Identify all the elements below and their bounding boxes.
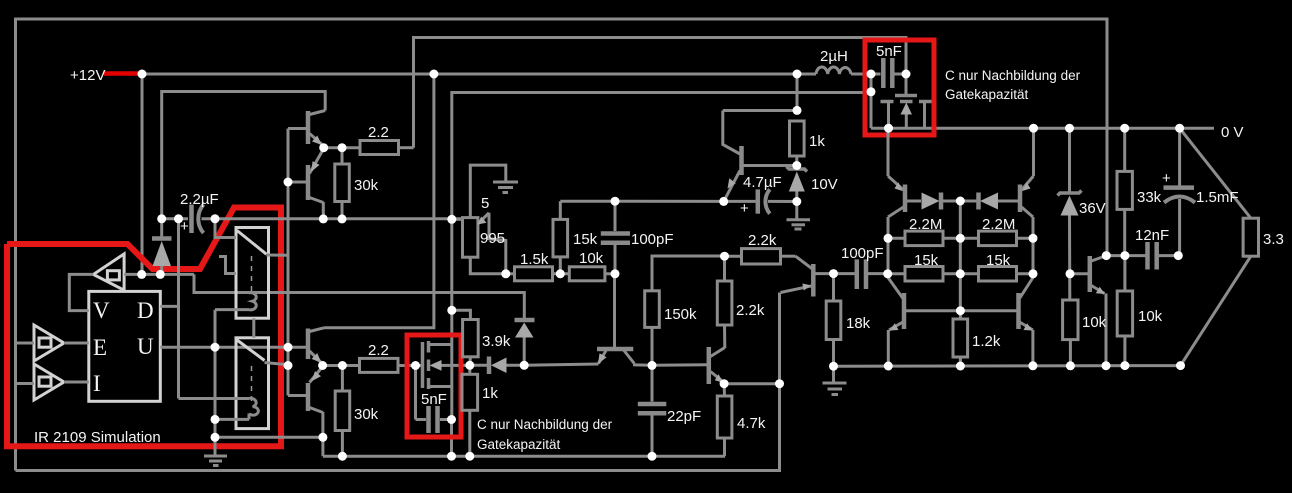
svg-text:15k: 15k: [914, 252, 939, 269]
wire I input: [16, 382, 35, 385]
wire to lower PNP collector node: [215, 436, 323, 439]
wire rail2 to top mosfet gate: [414, 38, 907, 148]
wire U output to driver bases: [160, 346, 288, 349]
switch S1: [236, 228, 269, 319]
svg-text:36V: 36V: [1079, 200, 1106, 217]
wire +12V drop to 1k: [796, 74, 799, 111]
svg-text:2.2k: 2.2k: [748, 232, 777, 249]
wire diode mid column: [959, 201, 962, 311]
switch S2: [236, 338, 269, 429]
wire driver base bus: [287, 129, 290, 396]
diode D4: [922, 193, 940, 210]
wire E buffer to box: [64, 342, 89, 345]
wire +12V drop to upper driver input: [141, 74, 144, 274]
svg-text:3.9k: 3.9k: [482, 333, 511, 350]
resistor R 3.9k: [452, 310, 471, 319]
buffer A2 (E input): [34, 325, 64, 361]
wire +12V drop to lower totem collector: [324, 74, 434, 328]
resistor R 2.2k vertical: [723, 256, 726, 281]
wire 0V rail: [871, 127, 1214, 130]
svg-text:10k: 10k: [579, 250, 604, 267]
red highlight box M1: [865, 40, 934, 135]
wire Q8 emitter to output column: [724, 382, 779, 385]
svg-text:2.2M: 2.2M: [909, 216, 942, 233]
node +12V label lead: [104, 71, 142, 76]
coil L S1: [249, 293, 256, 310]
transistor Q11 PNP left: [903, 185, 908, 213]
wire S1 coil return: [215, 308, 249, 311]
diode D5: [960, 200, 978, 203]
wire bottom rail to PNP emitter: [16, 293, 780, 471]
wire upper driver output node: [324, 146, 360, 149]
buffer A3 (I input): [34, 364, 64, 400]
ground pot: [493, 181, 518, 184]
svg-text:2.2: 2.2: [368, 124, 389, 141]
wire S1-S2 link: [252, 318, 255, 338]
capacitor C 22pF: [651, 366, 654, 402]
svg-text:995: 995: [480, 230, 505, 247]
svg-text:1.5k: 1.5k: [520, 251, 549, 268]
svg-text:1k: 1k: [482, 385, 498, 402]
svg-text:30k: 30k: [354, 406, 379, 423]
wire +12V rail: [142, 73, 816, 76]
inductor L 2uH: [816, 67, 851, 74]
resistor R 1k top: [790, 121, 805, 156]
svg-text:15k: 15k: [986, 252, 1011, 269]
capacitor C 4.7uF: [724, 200, 756, 203]
zener D 36V: [1068, 128, 1071, 192]
red highlight box M2: [407, 335, 461, 437]
wire coil ground column: [214, 310, 217, 455]
diode D3 from A1 net: [515, 318, 535, 323]
capacitor C 12nF: [1145, 242, 1150, 270]
zener D 10V: [787, 167, 808, 172]
svg-text:+: +: [740, 200, 749, 217]
wire 2.2k node rail: [652, 256, 725, 291]
capacitor C boot 2.2uF: [162, 217, 188, 220]
svg-text:D: D: [137, 298, 154, 323]
transistor Q15 NPN output: [1088, 256, 1093, 292]
coil L S2: [249, 398, 258, 415]
capacitor C 100pF mid: [614, 201, 617, 231]
svg-text:1.5mF: 1.5mF: [1196, 189, 1239, 206]
svg-text:5nF: 5nF: [421, 391, 447, 408]
resistor R 4.7k: [723, 384, 726, 396]
IR2109 red highlight outline: [7, 208, 281, 447]
svg-text:3.3: 3.3: [1263, 231, 1284, 248]
svg-text:10k: 10k: [1138, 308, 1163, 325]
potentiometer R 5/995: [463, 218, 478, 258]
wire driver ground bus: [323, 455, 725, 458]
wire mosfet M2 gate: [407, 364, 423, 367]
transistor Q9 PNP: [811, 264, 816, 297]
svg-text:15k: 15k: [573, 231, 598, 248]
resistor R 10k first: [1063, 300, 1078, 340]
resistor R 150k: [645, 291, 660, 328]
svg-text:U: U: [137, 334, 154, 359]
resistor R 30k lower: [341, 366, 344, 392]
svg-text:0 V: 0 V: [1221, 124, 1244, 141]
resistor R 3.3 with diagonals: [1180, 128, 1251, 218]
wire I buffer to box: [64, 381, 89, 384]
junction dots: [138, 70, 147, 79]
transistor Q7 PNP mid: [597, 347, 633, 352]
resistor R 2.2k horizontal: [725, 255, 742, 258]
transistor Q6 lower PNP: [306, 383, 311, 411]
diode D2 to gate node: [470, 364, 487, 367]
mosfet M1 top (gate capacitance cell): [895, 94, 917, 98]
svg-text:12nF: 12nF: [1135, 227, 1169, 244]
resistor R 15k left: [888, 272, 905, 275]
transistor Q3 upper NPN: [306, 111, 311, 144]
svg-text:4.7µF: 4.7µF: [743, 174, 782, 191]
resistor R 10k mid: [569, 267, 605, 281]
ground IR2109: [204, 455, 227, 458]
wire D riser to S2 coil: [179, 397, 250, 400]
svg-text:2.2: 2.2: [368, 342, 389, 359]
wire lower driver base tap S2: [288, 346, 308, 349]
resistor R 2.2 upper: [360, 141, 399, 155]
ground 10V zener: [795, 202, 798, 220]
resistor R 1.2k: [959, 311, 962, 319]
capacitor C 100pF right: [834, 272, 855, 275]
wire buffer A1 output to V pin: [69, 274, 93, 310]
svg-text:Gatekapazität: Gatekapazität: [945, 87, 1029, 102]
mosfet M2 lower (gate capacitance cell): [421, 342, 425, 388]
svg-text:33k: 33k: [1137, 189, 1162, 206]
wire S2 coil return: [248, 414, 251, 420]
capacitor C1 5nF top: [881, 58, 886, 88]
resistor R 10k second: [1123, 256, 1126, 291]
wire rail4 output gate feed: [452, 93, 871, 220]
svg-text:2.2k: 2.2k: [736, 302, 765, 319]
op-amp U1 IR2109 box: [89, 291, 161, 401]
capacitor C2 5nF: [416, 418, 427, 421]
svg-text:+: +: [1162, 170, 1171, 187]
svg-text:V: V: [93, 298, 110, 323]
resistor R 15k right: [960, 272, 978, 275]
svg-text:10V: 10V: [811, 176, 838, 193]
wire mid signal to amplifier: [524, 364, 598, 365]
wire output column: [450, 219, 453, 419]
svg-text:30k: 30k: [354, 177, 379, 194]
svg-text:5: 5: [481, 195, 489, 212]
resistor R 33k: [1123, 128, 1126, 171]
wire mid top rail: [560, 200, 723, 203]
svg-text:4.7k: 4.7k: [737, 415, 766, 432]
resistor R 2.2M left: [888, 237, 905, 240]
svg-text:+12V: +12V: [70, 67, 105, 84]
svg-text:I: I: [93, 371, 101, 396]
svg-text:100pF: 100pF: [631, 231, 674, 248]
wire lower driver output node: [323, 364, 360, 367]
diode D boot: [160, 219, 163, 239]
wire VS to S1 input: [215, 219, 236, 238]
svg-text:2.2µF: 2.2µF: [180, 191, 219, 208]
wire compensation node: [1106, 254, 1147, 257]
svg-text:2µH: 2µH: [820, 48, 848, 65]
wire Q7 collector to Q8 base: [652, 363, 708, 367]
svg-text:1.2k: 1.2k: [972, 333, 1001, 350]
svg-text:5nF: 5nF: [876, 43, 902, 60]
resistor R 18k: [832, 274, 835, 301]
wire A1 net to switch coil and boost diode: [194, 274, 524, 318]
resistor R 1k lower: [468, 365, 471, 374]
transistor Q5 lower NPN: [306, 329, 311, 360]
ground 18k: [823, 382, 847, 385]
transistor Q4 upper PNP: [306, 165, 311, 200]
svg-text:22pF: 22pF: [667, 408, 701, 425]
svg-text:1k: 1k: [809, 133, 825, 150]
resistor R 30k upper: [341, 148, 344, 164]
resistor R 1.5k: [506, 272, 515, 275]
wire upper driver supply loop: [162, 92, 326, 219]
svg-text:100pF: 100pF: [841, 245, 884, 262]
resistor R 15k mid: [559, 257, 562, 274]
svg-text:C nur Nachbildung der: C nur Nachbildung der: [945, 68, 1081, 83]
transistor Q12 PNP right: [1018, 185, 1023, 213]
transistor Q10 NPN vas: [723, 111, 740, 155]
capacitor C 1.5mF: [1178, 128, 1181, 185]
wire D output riser: [160, 305, 178, 308]
wire buffer A1 input net: [124, 273, 194, 276]
svg-text:E: E: [93, 335, 107, 360]
resistor R 2.2M right: [960, 237, 978, 240]
transistor Q8 NPN mid: [707, 347, 712, 384]
svg-text:Gatekapazität: Gatekapazität: [477, 437, 561, 452]
resistor R 2.2 lower: [360, 358, 399, 372]
transistor Q13 NPN lower left: [902, 293, 907, 329]
svg-text:10k: 10k: [1082, 314, 1107, 331]
svg-text:18k: 18k: [846, 315, 871, 332]
wire top feedback rail: [16, 19, 1108, 471]
transistor Q14 NPN lower right: [1016, 293, 1021, 329]
svg-text:IR 2109 Simulation: IR 2109 Simulation: [34, 429, 161, 446]
wire E input: [16, 342, 35, 345]
wire 1k top feed: [723, 109, 797, 112]
buffer A1 (V input): [93, 254, 124, 290]
wire S1 aux stub: [219, 257, 236, 274]
wire right ground rail: [834, 364, 1181, 368]
svg-text:150k: 150k: [664, 306, 697, 323]
svg-text:C nur Nachbildung der: C nur Nachbildung der: [477, 417, 613, 432]
svg-text:2.2M: 2.2M: [982, 216, 1015, 233]
